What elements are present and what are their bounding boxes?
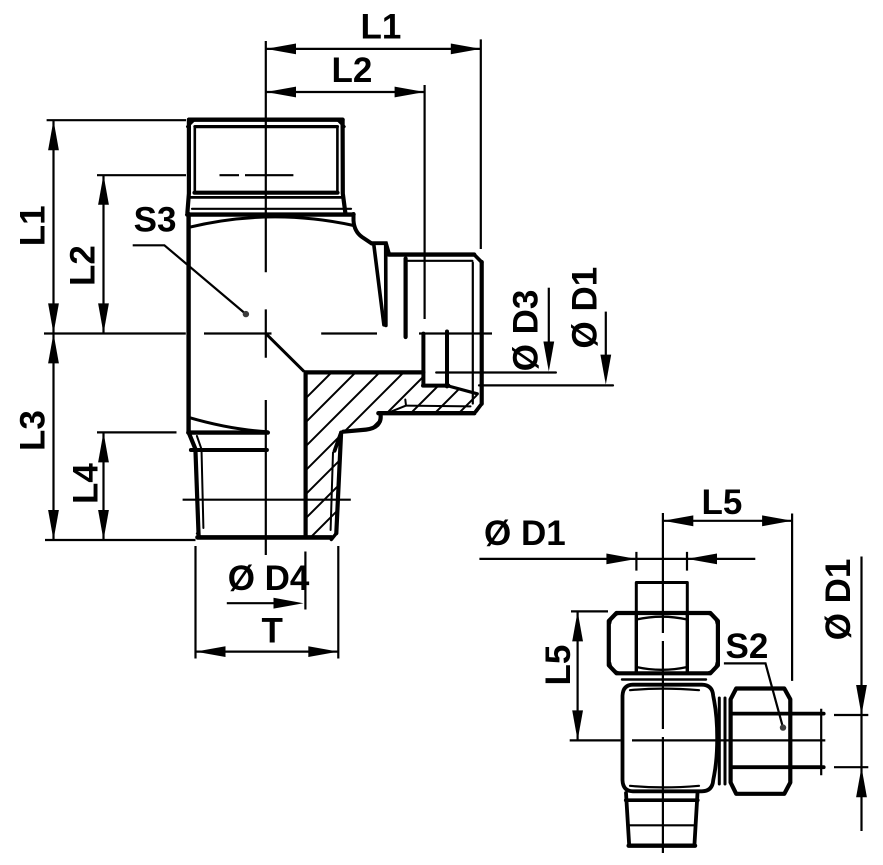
svg-text:L1: L1	[361, 8, 402, 47]
svg-text:Ø D1: Ø D1	[819, 559, 858, 641]
svg-text:Ø D3: Ø D3	[507, 290, 546, 372]
svg-text:Ø D1: Ø D1	[484, 514, 566, 553]
svg-text:L2: L2	[332, 51, 373, 90]
svg-text:L4: L4	[67, 463, 106, 504]
svg-text:T: T	[262, 612, 283, 651]
svg-text:S3: S3	[134, 201, 177, 240]
svg-text:Ø D1: Ø D1	[566, 267, 605, 349]
svg-text:L5: L5	[539, 645, 578, 686]
svg-text:L2: L2	[64, 245, 103, 286]
svg-text:Ø D4: Ø D4	[228, 559, 310, 598]
svg-text:L1: L1	[14, 205, 53, 246]
svg-text:L5: L5	[702, 483, 743, 522]
svg-text:S2: S2	[726, 627, 769, 666]
svg-text:L3: L3	[14, 410, 53, 451]
